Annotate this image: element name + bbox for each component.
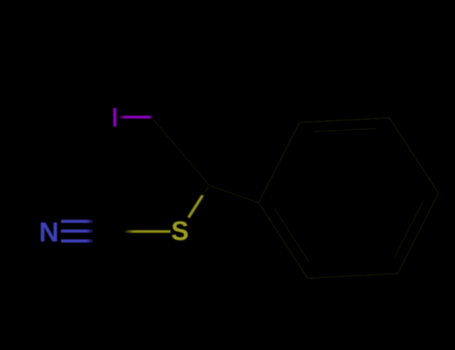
svg-text:N: N <box>39 216 59 247</box>
atom label I (iodine, purple) <box>113 108 116 127</box>
bond S-CH (sulfur olive part) <box>189 196 203 218</box>
bond S-CH (dark carbon part) <box>203 186 210 196</box>
aromatic inner bond (lower-left edge) <box>274 208 309 262</box>
bond CH-ring (dark carbon) <box>210 186 259 203</box>
aromatic inner bond (lower-right edge) <box>395 200 424 257</box>
bond CH-CH2 (dark carbon) <box>153 119 210 186</box>
svg-text:S: S <box>171 216 189 246</box>
bond CH2-I (iodine purple) <box>120 116 152 119</box>
aromatic inner bond (top edge) <box>313 129 377 132</box>
triple bond N#C (blue) <box>61 221 93 241</box>
benzene ring (dark olive hexagon) <box>259 118 439 278</box>
bond C-S (sulfur olive, fading toward carbon) <box>125 230 171 233</box>
